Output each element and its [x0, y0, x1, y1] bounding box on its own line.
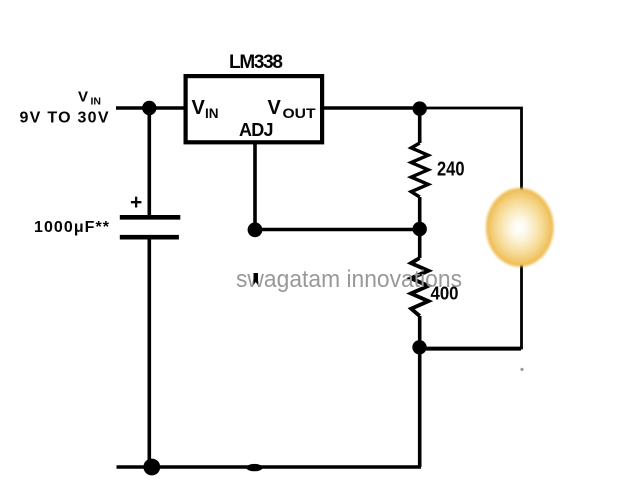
svg-text:240: 240 — [437, 159, 465, 181]
svg-text:ADJ: ADJ — [239, 120, 274, 140]
svg-text:V: V — [78, 89, 88, 106]
svg-text:IN: IN — [205, 106, 219, 121]
svg-text:IN: IN — [91, 96, 102, 108]
svg-text:9V TO 30V: 9V TO 30V — [20, 110, 109, 127]
svg-text:LM338: LM338 — [229, 52, 283, 73]
svg-text:V: V — [192, 97, 206, 119]
svg-text:400: 400 — [431, 284, 459, 304]
svg-text:swagatam innovations: swagatam innovations — [236, 266, 462, 293]
svg-text:OUT: OUT — [283, 106, 317, 121]
svg-text:+: + — [130, 191, 142, 214]
svg-text:1000μF**: 1000μF** — [34, 219, 110, 236]
svg-text:V: V — [268, 97, 282, 119]
